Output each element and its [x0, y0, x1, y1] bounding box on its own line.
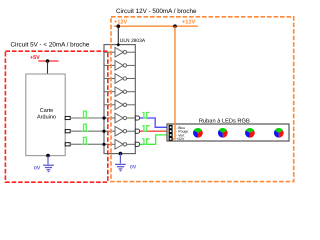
svg-text:+5V: +5V — [30, 55, 40, 61]
svg-text:+12V: +12V — [114, 19, 127, 25]
Arduino pin 3 — [65, 143, 70, 146]
connector labels — [176, 126, 188, 141]
svg-text:ULN 2803A: ULN 2803A — [120, 38, 146, 44]
svg-text:Ruban à LEDs RGB: Ruban à LEDs RGB — [199, 117, 250, 124]
wire arduino pin1 to ULN — [70, 117, 104, 119]
ground arduino junction — [46, 154, 50, 158]
LED 1 — [193, 128, 203, 138]
LED 4 — [274, 128, 284, 138]
chip ground symbol — [115, 164, 126, 170]
output pin 8 — [135, 142, 139, 146]
dashed box circuit 5V — [5, 51, 107, 182]
svg-text:0V: 0V — [130, 165, 137, 171]
inverter 1 — [104, 47, 135, 57]
input junction dot 8 — [102, 143, 105, 146]
inverter 8 — [104, 140, 135, 150]
LED 3 — [245, 128, 255, 138]
wire +12V to chip — [117, 26, 119, 44]
svg-text:Arduino: Arduino — [37, 115, 56, 121]
chip ground junction — [119, 152, 123, 156]
rail +12V — [114, 25, 198, 27]
LED strip box — [167, 124, 289, 141]
power +5V rail — [38, 60, 58, 62]
output pin 7 — [135, 129, 139, 133]
inverter 5 — [104, 100, 135, 110]
pulse input 3 — [81, 137, 88, 144]
pulse input 1 — [81, 111, 88, 118]
pulse output 6 inverted — [142, 113, 149, 119]
chip ground wire — [119, 154, 121, 164]
inverter 6 — [104, 113, 135, 123]
strip connector — [169, 125, 173, 141]
ground arduino wire — [47, 156, 49, 165]
LED 2 — [218, 128, 228, 138]
wire orange 12V to strip — [173, 26, 176, 139]
input junction dot 6 — [102, 116, 105, 119]
input junction dot 7 — [102, 130, 105, 133]
pulse output 8 inverted — [142, 139, 149, 145]
pulse input 2 — [81, 124, 88, 131]
svg-text:Circuit 5V - < 20mA / broche: Circuit 5V - < 20mA / broche — [11, 42, 90, 49]
Arduino pin 1 — [65, 116, 70, 119]
junction dot rail left — [117, 24, 121, 28]
inverter 4 — [104, 87, 135, 97]
junction dot rail right — [173, 24, 177, 28]
inverter 7 — [104, 126, 135, 136]
inverter 3 — [104, 74, 135, 84]
svg-text:Carte: Carte — [40, 108, 53, 114]
svg-text:0V: 0V — [34, 166, 41, 172]
pulse output 7 inverted — [142, 126, 149, 132]
ground arduino symbol — [43, 165, 54, 171]
wire arduino pin2 to ULN — [70, 130, 104, 132]
junction dot +5V — [46, 59, 50, 63]
op chip ULN2803A box — [104, 45, 135, 154]
output pin 6 — [135, 116, 139, 120]
svg-text:+12V: +12V — [176, 137, 185, 141]
Arduino pin 2 — [65, 130, 70, 133]
wire blue to strip — [140, 118, 169, 127]
svg-text:Circuit 12V - 500mA / broche: Circuit 12V - 500mA / broche — [116, 8, 197, 15]
dashed box circuit 12V — [111, 17, 294, 182]
Arduino board box — [26, 74, 65, 156]
wire arduino pin3 to ULN — [70, 143, 104, 145]
inverter 2 — [104, 61, 135, 71]
wire green to strip — [140, 135, 169, 144]
wire red to strip — [140, 130, 169, 132]
chip top pin dot — [117, 43, 120, 46]
wire +5V to Arduino — [47, 61, 49, 74]
svg-text:+12V: +12V — [182, 19, 195, 25]
